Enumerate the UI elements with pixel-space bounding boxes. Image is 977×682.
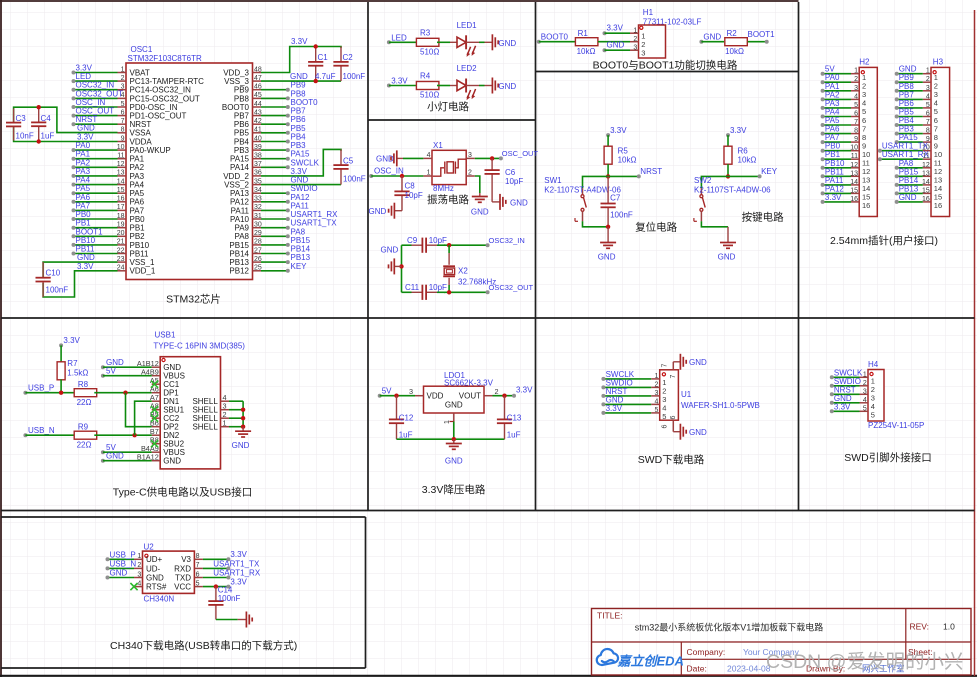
wire SHELL 2 xyxy=(229,417,243,419)
pin 1 stub X1 xyxy=(423,175,432,177)
sheet border left xyxy=(0,0,2,677)
ground left of X2 rail xyxy=(394,265,401,267)
svg-text:K2-1107ST-A4DW-06: K2-1107ST-A4DW-06 xyxy=(694,186,771,195)
no-connect X on SBU1 xyxy=(151,406,158,413)
svg-text:C9: C9 xyxy=(407,236,418,245)
ground right of C14 xyxy=(238,619,247,621)
LED panel bottom border xyxy=(368,119,536,121)
svg-text:C2: C2 xyxy=(343,53,354,62)
pin 2 stub H3 xyxy=(923,81,931,83)
svg-text:GND: GND xyxy=(77,253,95,262)
wire net PA7 pin17 xyxy=(74,209,118,211)
pin 1 (UD+) stub U2 xyxy=(134,558,143,560)
svg-text:10pF: 10pF xyxy=(505,177,523,186)
svg-text:GND: GND xyxy=(703,32,721,41)
pin B5 (CC2) stub USB1 xyxy=(152,417,161,419)
pin 7 stub U1 (top shell) xyxy=(672,362,674,370)
svg-text:BOOT0与BOOT1功能切换电路: BOOT0与BOOT1功能切换电路 xyxy=(593,59,738,72)
net label 3.3V (H1 pin1) xyxy=(603,31,607,35)
svg-text:5: 5 xyxy=(863,405,867,412)
wire junction to switch xyxy=(583,176,609,188)
wire net PB0 H2 pin10 xyxy=(823,150,851,152)
pin A6 (DP1) stub USB1 xyxy=(152,392,161,394)
svg-text:1: 1 xyxy=(633,27,637,34)
pin 43 (PB7) stub xyxy=(253,115,262,117)
pin B6 (DP2) stub USB1 xyxy=(152,426,161,428)
pin 3 stub U1 xyxy=(651,395,660,397)
capacitor C12 xyxy=(396,396,398,420)
wire net PB0 pin18 xyxy=(74,218,118,220)
pin 44 (BOOT0) stub xyxy=(253,106,262,108)
svg-text:10kΩ: 10kΩ xyxy=(618,156,637,165)
svg-text:21: 21 xyxy=(117,239,125,246)
wire net KEY pin25 xyxy=(261,270,288,272)
svg-text:GND: GND xyxy=(598,253,616,262)
svg-text:5: 5 xyxy=(854,102,858,109)
pin 12 stub H3 xyxy=(923,167,931,169)
svg-text:USB_P: USB_P xyxy=(110,550,136,559)
svg-text:39: 39 xyxy=(254,144,262,151)
pin 6 (TXD) stub U2 xyxy=(194,577,203,579)
pin 36 (VDD_2) stub xyxy=(253,175,262,177)
title block outer frame xyxy=(592,609,972,676)
wire net PA8 H3 pin12 xyxy=(897,167,923,169)
junction C4 top xyxy=(37,105,41,109)
svg-text:17: 17 xyxy=(117,204,125,211)
svg-text:3.3V: 3.3V xyxy=(291,37,308,46)
capacitor C11 xyxy=(412,291,423,293)
no-connect X on SBU2 xyxy=(151,440,158,447)
wire net SWDIO H4 pin2 xyxy=(832,385,860,387)
resistor R7 1.5k pullup xyxy=(59,343,63,347)
junction SHELL 1 xyxy=(241,425,245,429)
wire net PA15 H3 pin9 xyxy=(897,141,923,143)
wire 5V to USB1 xyxy=(103,375,152,377)
pin 4 (RTS#) stub U2 xyxy=(134,586,143,588)
svg-text:BOOT0: BOOT0 xyxy=(541,32,569,41)
wire net NRST pin7 xyxy=(74,123,118,125)
pin 12 (PA2) stub xyxy=(118,166,127,168)
svg-text:2023-04-08: 2023-04-08 xyxy=(727,664,771,674)
svg-text:U1: U1 xyxy=(681,390,692,399)
pin 8 stub H3 xyxy=(923,133,931,135)
pin SHELL 1 stub USB1 xyxy=(221,426,230,428)
svg-text:8: 8 xyxy=(926,128,930,135)
svg-text:R2: R2 xyxy=(727,29,738,38)
wire junction to switch xyxy=(701,176,728,188)
svg-text:C7: C7 xyxy=(610,193,621,202)
svg-text:6: 6 xyxy=(121,109,125,116)
svg-text:14: 14 xyxy=(922,179,930,186)
CH340 panel right border xyxy=(365,517,367,668)
pin 26 (PB13) stub xyxy=(253,261,262,263)
wire R3 to LED1 xyxy=(437,41,450,43)
wire net PB1 pin19 xyxy=(74,227,118,229)
pin 1 circle U1 xyxy=(662,373,665,376)
pin 35 (VSS_2) stub xyxy=(253,184,262,186)
svg-text:100nF: 100nF xyxy=(610,211,633,220)
svg-text:USB_N: USB_N xyxy=(110,559,137,568)
junction C1 bottom xyxy=(314,79,318,83)
svg-text:3.3V: 3.3V xyxy=(606,404,623,413)
svg-text:GND: GND xyxy=(291,176,309,185)
svg-text:1uF: 1uF xyxy=(399,431,413,440)
svg-text:14: 14 xyxy=(117,178,125,185)
net label OSC32_IN xyxy=(486,243,490,247)
svg-text:PB5: PB5 xyxy=(291,124,307,133)
svg-text:13: 13 xyxy=(117,170,125,177)
pin 3 (GND) stub U2 xyxy=(134,577,143,579)
svg-text:12: 12 xyxy=(850,162,858,169)
capacitor C9 xyxy=(412,244,423,246)
svg-text:43: 43 xyxy=(254,109,262,116)
pin 13 stub H3 xyxy=(923,175,931,177)
pin 31 (PA10) stub xyxy=(253,218,262,220)
junction DP1/DP2 branch xyxy=(123,391,127,395)
svg-text:3.3V: 3.3V xyxy=(291,167,308,176)
pin 1 stub H4 xyxy=(860,376,869,378)
pin 20 (PB2) stub xyxy=(118,235,127,237)
svg-text:13: 13 xyxy=(922,170,930,177)
svg-text:C4: C4 xyxy=(41,114,52,123)
svg-text:LED1: LED1 xyxy=(457,21,478,30)
wire net PB3 pin39 xyxy=(261,149,288,151)
wire to C9 xyxy=(402,244,412,246)
svg-text:SW2: SW2 xyxy=(694,176,712,185)
wire net PB10 pin21 xyxy=(74,244,118,246)
svg-text:3.3V: 3.3V xyxy=(825,193,842,202)
pin 1 stub H3 xyxy=(923,73,931,75)
svg-text:GND: GND xyxy=(607,40,625,49)
svg-text:X1: X1 xyxy=(433,141,443,150)
wire SHELL bus xyxy=(242,401,244,427)
svg-text:复位电路: 复位电路 xyxy=(635,221,677,234)
svg-text:12: 12 xyxy=(117,161,125,168)
svg-text:27: 27 xyxy=(254,247,262,254)
net label GND (R2) xyxy=(699,40,703,44)
svg-text:H2: H2 xyxy=(859,58,870,67)
pin 5 (PD0-OSC_IN) stub xyxy=(118,106,127,108)
svg-text:100nF: 100nF xyxy=(46,286,69,295)
CH340 panel bottom border xyxy=(1,667,366,669)
svg-text:3.3V: 3.3V xyxy=(730,126,747,135)
svg-text:V3: V3 xyxy=(181,555,191,564)
svg-text:510Ω: 510Ω xyxy=(420,91,439,100)
title block line vertical logo xyxy=(680,642,682,675)
svg-text:RXD: RXD xyxy=(174,564,191,573)
svg-text:GND: GND xyxy=(290,72,308,81)
resistor R8 22R xyxy=(74,389,97,397)
svg-text:GND: GND xyxy=(510,198,528,207)
wire X1 pin2 to ground xyxy=(475,176,480,193)
svg-text:16: 16 xyxy=(117,196,125,203)
pin 14 (PA4) stub xyxy=(118,184,127,186)
capacitor C1 xyxy=(315,47,317,62)
wire OSC_IN to X1 pin1 xyxy=(371,175,423,177)
svg-text:5: 5 xyxy=(196,580,200,587)
svg-text:Company:: Company: xyxy=(687,647,726,657)
wire 3.3V pin24 via C10 loop xyxy=(43,271,117,297)
svg-text:1uF: 1uF xyxy=(41,132,55,141)
junction C9/X2 xyxy=(447,243,451,247)
wire R5 to junction xyxy=(607,164,609,176)
net label 3.3V xyxy=(387,84,391,88)
svg-text:5: 5 xyxy=(121,101,125,108)
svg-text:X2: X2 xyxy=(458,267,468,276)
wire net PB8 pin45 xyxy=(261,97,288,99)
wire net PA3 pin13 xyxy=(74,175,118,177)
svg-text:2: 2 xyxy=(926,76,930,83)
wire net PB4 pin40 xyxy=(261,141,288,143)
wire net PB11 H2 pin13 xyxy=(823,175,851,177)
ground below C8 xyxy=(394,210,402,212)
svg-text:REV:: REV: xyxy=(910,622,930,632)
svg-text:6: 6 xyxy=(926,111,930,118)
wire net USART1_TX H3 pin10 xyxy=(880,150,923,152)
pin 15 (PA5) stub xyxy=(118,192,127,194)
svg-text:22: 22 xyxy=(117,247,125,254)
pin 6 stub H3 xyxy=(923,116,931,118)
svg-text:3.3V: 3.3V xyxy=(230,578,247,587)
wire net USART1_RX pin31 xyxy=(261,218,288,220)
svg-text:UD+: UD+ xyxy=(146,555,163,564)
wire net 3.3V H2 pin16 xyxy=(823,201,851,203)
wire SHELL 3 xyxy=(229,409,243,411)
svg-text:TITLE:: TITLE: xyxy=(597,611,623,621)
svg-text:42: 42 xyxy=(254,118,262,125)
svg-text:TXD: TXD xyxy=(175,573,191,582)
pin 8 (VSSA) stub xyxy=(118,132,127,134)
svg-text:3.3V: 3.3V xyxy=(834,402,851,411)
svg-text:1: 1 xyxy=(223,418,227,427)
svg-text:1.0: 1.0 xyxy=(943,622,955,632)
svg-text:7: 7 xyxy=(854,119,858,126)
svg-text:GND: GND xyxy=(498,39,516,48)
wire net 5V H2 pin1 xyxy=(823,73,851,75)
pin 46 (PB9) stub xyxy=(253,89,262,91)
pin A8 (SBU1) stub USB1 xyxy=(152,409,161,411)
wire net SWDIO pin34 xyxy=(261,192,288,194)
svg-text:PB13: PB13 xyxy=(229,258,249,267)
connector H4 body xyxy=(868,370,884,422)
svg-text:GND: GND xyxy=(445,457,463,466)
pin 2 stub LDO1 xyxy=(484,395,493,397)
pin 5 stub H4 xyxy=(860,410,869,412)
pin 7 stub H2 xyxy=(851,124,859,126)
svg-text:GND: GND xyxy=(471,208,489,217)
panel divider vertical x368 xyxy=(367,2,369,511)
wire net GND H4 pin4 xyxy=(832,402,860,404)
svg-text:38: 38 xyxy=(254,153,262,160)
wire LDO1 VOUT to 3.3V xyxy=(493,395,515,397)
svg-text:4: 4 xyxy=(137,580,141,587)
wire net PB8 H3 pin3 xyxy=(897,90,923,92)
svg-text:37: 37 xyxy=(254,161,262,168)
net label GND (USB1 B1A12) xyxy=(101,459,105,463)
ground below SW1 xyxy=(607,227,609,243)
pin 1 stub U1 xyxy=(651,378,660,380)
svg-text:12: 12 xyxy=(922,162,930,169)
pin B4A9 (VBUS) stub USB1 xyxy=(152,451,161,453)
pin 3 stub H2 xyxy=(851,90,859,92)
ground for LED2 xyxy=(485,85,493,87)
svg-text:32: 32 xyxy=(254,204,262,211)
svg-text:1: 1 xyxy=(863,371,867,378)
ground bottom of U1 xyxy=(673,431,680,433)
resistor R3 510 xyxy=(416,38,439,46)
svg-text:SWD下载电路: SWD下载电路 xyxy=(638,453,705,466)
pin B1A12 (GND) stub USB1 xyxy=(152,460,161,462)
IC OSC1 STM32F103C8T6TR body xyxy=(126,63,253,280)
pin 15 stub H2 xyxy=(851,192,859,194)
wire net PA12 H2 pin15 xyxy=(823,192,851,194)
wire GND to X1 pin4 xyxy=(403,157,423,159)
pin 11 (PA1) stub xyxy=(118,158,127,160)
wire net PA4 H2 pin6 xyxy=(823,116,851,118)
junction SHELL 2 xyxy=(241,416,245,420)
pin 11 stub H2 xyxy=(851,158,859,160)
wire net PB6 pin42 xyxy=(261,123,288,125)
svg-text:15: 15 xyxy=(850,187,858,194)
svg-text:C11: C11 xyxy=(405,283,420,292)
pin 7 stub H3 xyxy=(923,124,931,126)
svg-text:H4: H4 xyxy=(868,360,879,369)
svg-text:OSC32_IN: OSC32_IN xyxy=(76,81,115,90)
svg-text:5: 5 xyxy=(926,102,930,109)
svg-text:OSC32_OUT: OSC32_OUT xyxy=(489,283,534,292)
pin 16 (PA6) stub xyxy=(118,201,127,203)
pin 1 stub H1 xyxy=(630,32,639,34)
connector U1 body xyxy=(660,370,679,420)
LED LED2 xyxy=(450,85,457,87)
pin A4B9 (VBUS) stub USB1 xyxy=(152,375,161,377)
sheet border bottom xyxy=(0,675,977,677)
svg-text:9: 9 xyxy=(854,136,858,143)
svg-text:STM32F103C8T6TR: STM32F103C8T6TR xyxy=(128,54,202,63)
svg-text:GND: GND xyxy=(110,569,128,578)
svg-text:SWD引脚外接接口: SWD引脚外接接口 xyxy=(844,451,932,464)
svg-text:7: 7 xyxy=(196,562,200,569)
svg-text:KEY: KEY xyxy=(761,167,778,176)
wire 5V to USB1 VBUS2 xyxy=(103,451,152,453)
svg-text:2: 2 xyxy=(121,75,125,82)
wire net PA1 H2 pin3 xyxy=(823,90,851,92)
panel divider row1/row2 xyxy=(1,317,975,319)
pin 3 stub H1 xyxy=(630,49,639,51)
wire net GND H3 pin1 xyxy=(897,73,923,75)
wire LED to R3 xyxy=(389,41,419,43)
svg-text:SHELL: SHELL xyxy=(192,423,218,432)
net label BOOT1 xyxy=(765,40,769,44)
svg-text:22Ω: 22Ω xyxy=(77,398,92,407)
svg-text:41: 41 xyxy=(254,127,262,134)
svg-text:R5: R5 xyxy=(618,147,629,156)
wire GND to H1 pin3 xyxy=(605,49,631,51)
svg-text:22Ω: 22Ω xyxy=(77,441,92,450)
svg-text:2: 2 xyxy=(863,380,867,387)
resistor R2 10k xyxy=(725,38,748,46)
capacitor C14 xyxy=(215,587,217,602)
svg-text:5: 5 xyxy=(871,411,875,420)
svg-text:6: 6 xyxy=(196,571,200,578)
svg-text:23: 23 xyxy=(117,256,125,263)
svg-text:RTS#: RTS# xyxy=(146,583,167,592)
svg-text:VOUT: VOUT xyxy=(459,392,481,401)
svg-text:24: 24 xyxy=(117,265,125,272)
wire net USART1_RX H3 pin11 xyxy=(880,158,923,160)
panel divider vertical x535.5 xyxy=(535,2,537,511)
wire C14 to ground xyxy=(216,619,238,621)
svg-text:R3: R3 xyxy=(420,28,431,37)
junction ground / rail xyxy=(399,264,403,268)
wire net SWCLK U1 pin1 xyxy=(603,378,651,380)
svg-text:2: 2 xyxy=(854,76,858,83)
pin 17 (PA7) stub xyxy=(118,209,127,211)
svg-text:GND: GND xyxy=(232,441,250,450)
wire LED2 to GND xyxy=(479,85,485,87)
wire 3.3V to H1 pin1 xyxy=(605,32,631,34)
connector H1 body xyxy=(639,25,666,58)
wire net PA1 pin11 xyxy=(74,158,118,160)
svg-text:100nF: 100nF xyxy=(343,72,366,81)
svg-text:R7: R7 xyxy=(67,359,78,368)
svg-text:6: 6 xyxy=(854,111,858,118)
capacitor C4 xyxy=(38,107,40,122)
pin 3 stub X1 xyxy=(466,157,475,159)
svg-text:30: 30 xyxy=(254,222,262,229)
svg-text:KEY: KEY xyxy=(291,262,308,271)
svg-text:3: 3 xyxy=(926,85,930,92)
wire net PB3 H3 pin8 xyxy=(897,133,923,135)
junction DN2/DN1 branch xyxy=(132,433,136,437)
pin 28 (PB15) stub xyxy=(253,244,262,246)
resistor R4 510 xyxy=(416,82,439,90)
svg-text:GND: GND xyxy=(106,452,124,461)
svg-text:PB5: PB5 xyxy=(234,129,250,138)
junction C11/X2 xyxy=(447,290,451,294)
svg-text:GND: GND xyxy=(718,253,736,262)
pin 7 (RXD) stub U2 xyxy=(194,567,203,569)
pin 2 stub H1 xyxy=(630,41,639,43)
pin 30 (PA9) stub xyxy=(253,227,262,229)
svg-text:BOOT1: BOOT1 xyxy=(748,30,776,39)
pin SHELL 3 stub USB1 xyxy=(221,409,230,411)
wire net 3.3V pin1 xyxy=(74,72,118,74)
BOOT panel bottom border xyxy=(536,71,799,73)
CH340 panel top border xyxy=(1,516,366,518)
svg-text:2.54mm插针(用户接口): 2.54mm插针(用户接口) xyxy=(830,234,938,247)
svg-text:C13: C13 xyxy=(507,414,522,423)
svg-text:10kΩ: 10kΩ xyxy=(577,47,596,56)
pin 2 stub U1 xyxy=(651,386,660,388)
net label GND (H1 pin3) xyxy=(603,48,607,52)
svg-text:6: 6 xyxy=(662,425,669,429)
title block line vertical rev xyxy=(905,609,907,660)
svg-text:USB_P: USB_P xyxy=(28,384,54,393)
wire net BOOT1 pin20 xyxy=(74,235,118,237)
pin A1B12 (GND) stub USB1 xyxy=(152,366,161,368)
pin 1 circle H2 xyxy=(861,71,864,74)
wire net USART1_RX U2 pin6 xyxy=(203,577,229,579)
pin 6 (PD1-OSC_OUT) stub xyxy=(118,115,127,117)
pin 1 stub LDO1 (GND) xyxy=(453,413,455,422)
svg-text:3: 3 xyxy=(409,387,413,396)
wire GND to USB1 GND2 xyxy=(103,460,152,462)
wire net PB15 H3 pin13 xyxy=(897,175,923,177)
svg-text:Date:: Date: xyxy=(687,664,707,674)
svg-text:15: 15 xyxy=(922,187,930,194)
wire net GND U1 pin4 xyxy=(603,403,651,405)
